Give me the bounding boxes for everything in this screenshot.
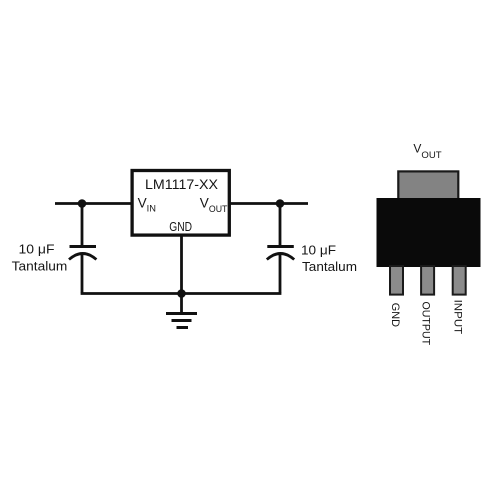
svg-text:GND: GND	[169, 220, 192, 234]
package pin 3	[453, 266, 466, 295]
package pin 2	[421, 266, 434, 295]
svg-text:10 μF: 10 μF	[19, 241, 55, 256]
capacitor C1 top lead wire	[81, 204, 84, 247]
package pin 1	[390, 266, 403, 295]
svg-text:INPUT: INPUT	[451, 300, 463, 335]
capacitor C2 top lead wire	[279, 204, 282, 247]
wire ground rail	[81, 292, 282, 295]
package tab	[398, 171, 458, 199]
node input junction	[78, 199, 87, 208]
svg-text:Tantalum: Tantalum	[12, 259, 68, 274]
svg-text:10 μF: 10 μF	[301, 242, 336, 257]
wire GND pin down	[180, 237, 183, 293]
svg-text:VOUT: VOUT	[413, 142, 441, 162]
svg-text:LM1117-XX: LM1117-XX	[145, 176, 219, 192]
wire input lead	[55, 202, 132, 205]
regulator U1 LM1117-XX box	[132, 171, 229, 236]
svg-text:OUTPUT: OUTPUT	[420, 302, 432, 346]
node ground junction	[177, 289, 186, 298]
node output junction	[276, 199, 285, 208]
capacitor C1 bottom lead wire	[81, 255, 84, 293]
wire output lead	[229, 202, 308, 205]
ground	[166, 294, 197, 328]
capacitor C2	[267, 247, 294, 260]
capacitor C1	[69, 247, 96, 260]
package body SOT-223	[377, 198, 481, 267]
svg-text:Tantalum: Tantalum	[302, 259, 357, 274]
capacitor C2 bottom lead wire	[279, 255, 282, 293]
svg-text:GND: GND	[389, 303, 401, 327]
